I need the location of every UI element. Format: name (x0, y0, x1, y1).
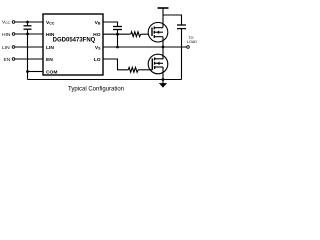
svg-text:EN: EN (46, 57, 53, 63)
labels (2, 20, 197, 93)
svg-text:VCC: VCC (2, 20, 11, 26)
power rail bar (158, 7, 169, 9)
terminal HIN (12, 33, 15, 36)
node switch (162, 46, 165, 49)
wire switch node to Q2 drain (162, 47, 164, 59)
wire LIN input (15, 46, 43, 48)
wire C1 bottom to COM (27, 29, 29, 79)
svg-text:LIN: LIN (46, 45, 54, 51)
resistor R2 low gate (128, 67, 138, 72)
svg-text:LOAD: LOAD (187, 40, 197, 44)
svg-text:HIN: HIN (2, 32, 11, 38)
node HIN crossing dot (26, 33, 29, 36)
svg-text:COM: COM (46, 69, 57, 75)
svg-text:EN: EN (4, 57, 11, 63)
svg-text:LO: LO (94, 57, 101, 63)
wire VS to load (103, 46, 187, 48)
svg-text:VB: VB (95, 20, 101, 26)
transistor Q2 low-side MOSFET (148, 54, 168, 74)
svg-text:VS: VS (95, 45, 101, 51)
capacitor C3 input (177, 24, 186, 26)
node COM (26, 70, 29, 73)
wire HO (103, 33, 131, 35)
wire EN input (15, 58, 43, 60)
terminal VCC (12, 21, 15, 24)
junction dots (26, 21, 164, 81)
svg-text:LIN: LIN (2, 45, 10, 51)
node ground (162, 78, 165, 81)
resistor R1 high gate (131, 32, 141, 37)
node VS/C2 (116, 46, 119, 49)
wire COM pin (28, 71, 44, 73)
node HO/C2 (116, 33, 119, 36)
wire C2 bottom to VS (117, 30, 119, 48)
node VCC/C1 (26, 21, 29, 24)
svg-text:VCC: VCC (46, 20, 55, 26)
capacitor C2 bootstrap (113, 26, 122, 28)
IC U1 DGD05473FNQ (43, 14, 103, 75)
transistor Q1 high-side MOSFET (148, 22, 168, 42)
wire ground rail bottom (28, 79, 182, 81)
wire VB (103, 22, 118, 27)
wire rail branch to C3 (163, 15, 182, 25)
wire Q2 source to ground (162, 67, 164, 84)
wire C3 bottom to ground (181, 29, 183, 80)
wire rail to Q1 drain (162, 8, 164, 28)
wire R2 to Q2 gate (138, 69, 150, 71)
wire LO (103, 59, 128, 70)
wire HIN input (15, 33, 43, 35)
svg-text:DGD05473FNQ: DGD05473FNQ (53, 38, 96, 44)
wire VCC input (15, 21, 43, 23)
terminal LIN (12, 46, 15, 49)
svg-text:Typical Configuration: Typical Configuration (68, 87, 124, 93)
wire Q1 source to switch node (162, 37, 164, 47)
terminal EN (12, 58, 15, 61)
ground (160, 84, 166, 88)
wire R1 to Q1 gate (141, 33, 149, 35)
terminal TO LOAD (187, 46, 190, 49)
capacitor C1 VCC bypass (27, 22, 29, 26)
